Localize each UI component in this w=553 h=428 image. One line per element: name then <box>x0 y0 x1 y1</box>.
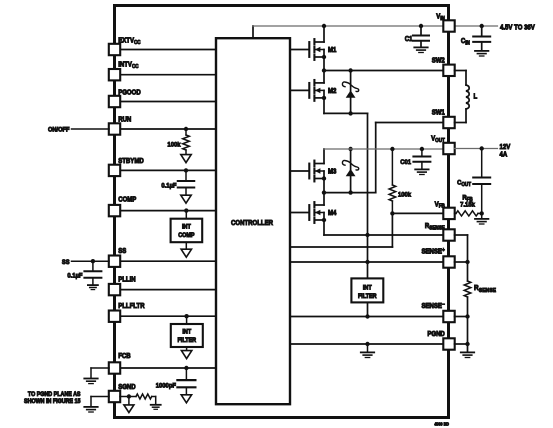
svg-text:PLLFLTR: PLLFLTR <box>118 302 145 309</box>
svg-text:4.5V TO 36V: 4.5V TO 36V <box>500 24 535 31</box>
svg-text:FCB: FCB <box>118 353 131 360</box>
svg-text:VOUT: VOUT <box>431 135 445 144</box>
svg-text:4A: 4A <box>500 151 508 158</box>
svg-text:RUN: RUN <box>118 116 131 123</box>
svg-text:RSENSE: RSENSE <box>474 285 497 294</box>
svg-text:RSENSE: RSENSE <box>425 223 446 232</box>
svg-text:FILTER: FILTER <box>358 294 377 300</box>
svg-text:M4: M4 <box>328 210 337 217</box>
svg-text:PGND: PGND <box>427 331 445 338</box>
svg-text:1000pF: 1000pF <box>156 382 176 389</box>
svg-text:SENSE−: SENSE− <box>421 302 444 311</box>
svg-text:COUT: COUT <box>457 179 471 188</box>
svg-text:100k: 100k <box>398 191 411 198</box>
svg-text:SW2: SW2 <box>432 57 445 64</box>
svg-text:7.15k: 7.15k <box>460 201 475 208</box>
svg-text:PLLIN: PLLIN <box>118 276 136 283</box>
svg-text:INT: INT <box>182 224 191 230</box>
svg-text:STBYMD: STBYMD <box>118 158 144 165</box>
svg-text:M1: M1 <box>328 47 337 54</box>
svg-text:SW1: SW1 <box>432 109 445 116</box>
svg-text:INT: INT <box>363 285 372 291</box>
svg-text:M3: M3 <box>328 168 337 175</box>
svg-text:VFB: VFB <box>435 201 446 210</box>
svg-text:SS: SS <box>118 248 127 255</box>
svg-text:M2: M2 <box>328 88 337 95</box>
svg-text:INTVCC: INTVCC <box>118 61 139 70</box>
svg-text:CONTROLLER: CONTROLLER <box>231 220 273 227</box>
svg-text:0.1µF: 0.1µF <box>161 182 176 189</box>
svg-text:L: L <box>474 93 478 100</box>
svg-text:C1: C1 <box>405 36 413 43</box>
svg-text:INT: INT <box>182 329 191 335</box>
svg-text:C01: C01 <box>400 159 411 166</box>
svg-text:CIN: CIN <box>461 38 470 47</box>
svg-text:PGOOD: PGOOD <box>118 89 141 96</box>
svg-text:EXTVCC: EXTVCC <box>118 37 141 46</box>
svg-text:4809 BD: 4809 BD <box>434 421 449 426</box>
svg-text:TO PGND PLANE AS: TO PGND PLANE AS <box>28 392 81 398</box>
svg-text:SS: SS <box>62 258 70 265</box>
svg-text:VIN: VIN <box>436 13 445 22</box>
svg-text:SHOWN IN FIGURE 15: SHOWN IN FIGURE 15 <box>24 399 81 405</box>
svg-text:0.1µF: 0.1µF <box>67 272 82 279</box>
svg-text:COMP: COMP <box>178 233 194 239</box>
svg-text:SENSE+: SENSE+ <box>421 247 444 256</box>
svg-text:12V: 12V <box>500 144 511 151</box>
svg-text:100k: 100k <box>167 141 180 148</box>
svg-text:ON/OFF: ON/OFF <box>48 126 70 133</box>
svg-text:COMP: COMP <box>118 196 137 203</box>
svg-text:FILTER: FILTER <box>177 338 196 344</box>
svg-text:SGND: SGND <box>118 384 136 391</box>
